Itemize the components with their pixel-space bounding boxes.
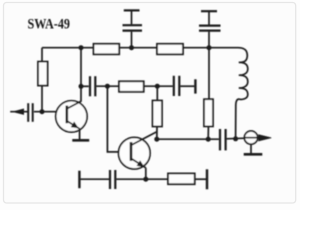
capacitor C6 bbox=[219, 129, 221, 150]
wire: R3 bottom stem to input node bbox=[41, 85, 43, 111]
bottom rail terminal bar right bbox=[206, 169, 208, 189]
wire: C4 to R4 bbox=[96, 85, 119, 87]
bottom rail terminal bar left bbox=[78, 171, 80, 189]
ground under VT1 bbox=[72, 139, 89, 142]
capacitor C1 top plate lead and terminal bbox=[131, 11, 133, 24]
resistor R2 bbox=[157, 44, 183, 55]
capacitor C4 bbox=[89, 76, 91, 96]
output arrow bbox=[258, 137, 262, 139]
wire: C5 to terminal bbox=[180, 85, 194, 87]
wire: R6 top stem from top rail bbox=[208, 48, 210, 99]
resistor R3 bbox=[38, 62, 48, 86]
capacitor C2 bbox=[199, 25, 221, 27]
wire: L1 bottom junction on output rail bbox=[235, 138, 237, 140]
scan border frame bbox=[4, 3, 296, 204]
terminal bar right of C5 bbox=[194, 79, 196, 93]
svg-text:SWA-49: SWA-49 bbox=[28, 17, 71, 33]
wire: VT2 base branch bbox=[107, 86, 130, 152]
capacitor C5 bbox=[173, 76, 175, 96]
wire: left branch down from top rail bbox=[41, 48, 43, 62]
wire: output rail bbox=[157, 138, 219, 140]
input arrow bbox=[10, 111, 28, 113]
output jack J1 bbox=[244, 131, 257, 144]
transistor VT2 bbox=[119, 132, 158, 180]
capacitor C2 top plate lead and terminal bbox=[208, 12, 210, 25]
capacitor C7 bbox=[109, 170, 111, 189]
resistor R7 bbox=[168, 173, 195, 184]
wire: R5 bottom stem to collector node bbox=[156, 127, 158, 140]
resistor R1 bbox=[94, 44, 120, 55]
wire: top supply rail bbox=[42, 47, 238, 49]
capacitor C3 bbox=[27, 103, 29, 122]
wire: R6 bottom stem bbox=[207, 126, 209, 139]
wire: C3 to VT1 base bbox=[34, 111, 67, 113]
transistor VT1 bbox=[56, 101, 87, 140]
resistor R5 bbox=[153, 101, 163, 127]
wire: C6 to output jack bbox=[227, 137, 245, 140]
wire: second rail left segment bbox=[81, 85, 89, 87]
wire: C7 to emitter node bbox=[116, 178, 168, 180]
wire: R7 to right terminal bbox=[195, 178, 206, 180]
capacitor C1 bbox=[123, 24, 143, 26]
inductor L1 bbox=[236, 48, 248, 139]
wire: bottom rail left segment bbox=[81, 178, 110, 180]
resistor R6 bbox=[204, 99, 213, 126]
ground under output jack bbox=[250, 144, 252, 154]
wire: collector lead of VT1 from top rail bbox=[80, 48, 82, 87]
wire: R5 top stem bbox=[156, 86, 158, 100]
resistor R4 bbox=[119, 81, 144, 92]
wire: R4 to R5 node bbox=[144, 85, 173, 87]
